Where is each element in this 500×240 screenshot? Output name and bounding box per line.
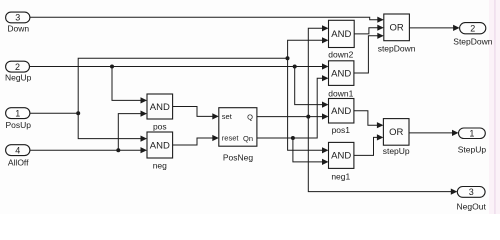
svg-text:1: 1 (469, 128, 474, 138)
arrowhead set (212, 113, 219, 119)
svg-text:3: 3 (15, 13, 20, 23)
arrowhead neg in2 (141, 147, 148, 153)
or gate stepDown (384, 14, 410, 41)
arrowhead neg1 in2 (322, 159, 329, 165)
svg-text:neg1: neg1 (331, 172, 350, 182)
and gate neg1 (329, 142, 354, 168)
arrowhead pos in1 (141, 97, 148, 103)
wire NegUp to down1 in1 (30, 66, 324, 68)
svg-text:set: set (222, 112, 233, 121)
wire neg1 out to stepUp in2 (354, 137, 378, 155)
wire AllOff to pos in2 (118, 114, 141, 151)
arrowhead stepDown in1 (377, 17, 384, 23)
wire AllOff to neg in2 (30, 149, 142, 151)
junction AllOff tee (116, 148, 120, 152)
arrowhead StepUp port (452, 130, 459, 136)
wire down1 out to stepDown in3 (354, 36, 378, 73)
svg-text:AND: AND (331, 151, 351, 162)
flipflop PosNeg (219, 108, 257, 147)
svg-text:1: 1 (15, 108, 20, 118)
arrowhead neg in1 (141, 136, 148, 142)
junction Qn bus (291, 136, 295, 140)
wire NegUp riser to pos1 in1 (295, 67, 323, 105)
arrowhead down2 in1 (322, 25, 329, 31)
wire PosUp to down2 in2 (288, 40, 323, 58)
wire Q up to down2 in1 (308, 28, 323, 116)
arrowhead neg1 in1 (322, 147, 329, 153)
svg-text:stepDown: stepDown (378, 44, 416, 54)
svg-text:StepDown: StepDown (453, 37, 492, 47)
svg-text:PosUp: PosUp (5, 120, 31, 130)
svg-text:StepUp: StepUp (458, 145, 487, 155)
wire pos out to set (173, 107, 214, 117)
svg-text:AND: AND (331, 106, 351, 117)
and gate pos (147, 94, 173, 119)
svg-text:Down: Down (7, 23, 29, 33)
svg-text:AND: AND (150, 140, 170, 151)
inport 3 Down (6, 12, 30, 23)
wire PosUp riser up (78, 58, 287, 113)
svg-text:down2: down2 (328, 49, 353, 59)
wire stepUp out to StepUp port (409, 132, 453, 134)
wire NegUp branch to pos in1 (112, 67, 142, 101)
arrowhead reset (212, 135, 219, 141)
wire Q to pos1 in2 (257, 116, 323, 118)
arrowhead down1 in1 (322, 63, 329, 69)
svg-text:Qn: Qn (243, 134, 253, 143)
svg-text:OR: OR (389, 127, 403, 138)
svg-text:reset: reset (222, 134, 240, 143)
svg-text:AND: AND (331, 29, 351, 40)
svg-text:down1: down1 (328, 89, 353, 99)
svg-text:AND: AND (331, 68, 351, 79)
inport 4 AllOff (6, 145, 30, 156)
svg-text:OR: OR (389, 23, 403, 34)
svg-text:AllOff: AllOff (8, 157, 29, 167)
svg-text:4: 4 (15, 145, 20, 155)
wire neg out to reset (173, 138, 214, 145)
junction NegUp/pos1 (293, 65, 297, 69)
arrowhead stepDown in3 (377, 33, 384, 39)
svg-text:NegOut: NegOut (457, 201, 487, 211)
svg-text:NegUp: NegUp (5, 73, 32, 83)
wire Qn to down1 in2 (257, 78, 323, 138)
right pink strip (489, 0, 500, 214)
svg-text:2: 2 (470, 23, 475, 33)
junction PosUp bus (286, 56, 290, 60)
and gate down1 (329, 61, 354, 86)
svg-text:2: 2 (15, 62, 20, 72)
and gate down2 (329, 20, 355, 47)
arrowhead pos in2 (141, 111, 148, 117)
junction Q bus (306, 115, 310, 119)
arrowhead stepDown in2 (377, 25, 384, 31)
wire Down to stepDown in1 (30, 17, 378, 19)
arrowhead down1 in2 (322, 75, 329, 81)
arrowhead stepUp in1 (377, 122, 384, 128)
and gate neg (147, 132, 173, 158)
outport 2 StepDown (460, 23, 486, 34)
svg-text:neg: neg (153, 161, 167, 171)
svg-text:pos1: pos1 (332, 125, 351, 135)
svg-text:3: 3 (469, 187, 474, 197)
wire stepDown out to StepDown port (409, 27, 454, 29)
and gate pos1 (329, 99, 354, 124)
wire PosUp to neg in1 (78, 113, 141, 138)
wire Q down to NegOut (308, 117, 452, 192)
arrowhead down2 in2 (322, 37, 329, 43)
arrowhead pos1 in1 (322, 102, 329, 108)
wire pos1 out to stepUp in1 (354, 111, 378, 125)
wire Qn to neg1 in2 (293, 138, 323, 162)
svg-text:PosNeg: PosNeg (223, 152, 254, 162)
arrowhead NegOut port (451, 189, 458, 195)
arrowhead pos1 in2 (322, 113, 329, 119)
outport 3 NegOut (457, 187, 485, 198)
svg-text:Q: Q (247, 112, 253, 121)
wire down2 out to stepDown in2 (354, 28, 378, 34)
svg-text:AND: AND (150, 102, 170, 113)
wire PosUp stub (30, 112, 78, 114)
outport 1 StepUp (459, 128, 486, 139)
junction PosUp tee (76, 111, 80, 115)
svg-text:stepUp: stepUp (383, 146, 410, 156)
inport 2 NegUp (6, 61, 30, 72)
junction NegUp/pos (110, 65, 114, 69)
svg-text:pos: pos (153, 122, 167, 132)
arrowhead StepDown port (453, 25, 460, 31)
wire PosUp to neg1 in1 (288, 58, 323, 150)
inport 1 PosUp (6, 108, 30, 119)
or gate stepUp (383, 119, 409, 146)
arrowhead stepUp in2 (377, 134, 384, 140)
